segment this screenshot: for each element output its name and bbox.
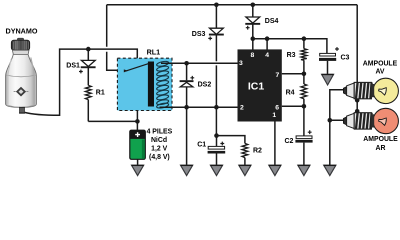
- wire R1 bottom to battery node: [88, 120, 137, 122]
- ground IC1 pin 1: [269, 165, 281, 175]
- svg-text:3: 3: [239, 60, 243, 67]
- svg-text:AMPOULE: AMPOULE: [363, 61, 398, 68]
- node junction DS2 top: [184, 61, 189, 66]
- capacitor C2: [295, 106, 312, 165]
- ground battery: [132, 165, 144, 175]
- svg-text:AMPOULE: AMPOULE: [363, 136, 398, 143]
- diode DS4: [245, 5, 260, 39]
- generator DYNAMO: [6, 38, 37, 113]
- svg-text:4 PILES: 4 PILES: [147, 129, 173, 136]
- svg-text:R3: R3: [287, 52, 296, 59]
- label AMPOULE AR: [363, 136, 398, 152]
- resistor R1: [85, 85, 91, 99]
- wire IC1 pin 7 to R3/R4 node: [282, 73, 304, 75]
- wire C1/DS3 node down: [215, 107, 217, 135]
- wire battery to ground: [137, 159, 139, 165]
- label C2 polarity +: [308, 130, 312, 134]
- IC U1 IC1: [238, 49, 282, 121]
- svg-text:NiCd: NiCd: [151, 137, 167, 144]
- node junction C1/R2: [214, 133, 219, 138]
- diode DS1: [81, 60, 96, 68]
- wire bulb tips to ground: [330, 90, 344, 165]
- svg-text:C1: C1: [197, 141, 206, 148]
- svg-text:2: 2: [240, 105, 244, 112]
- svg-text:R4: R4: [286, 90, 295, 97]
- svg-text:DYNAMO: DYNAMO: [6, 26, 38, 35]
- wire DS1 branch: [87, 49, 89, 121]
- ground bulbs: [324, 165, 336, 175]
- label DS1 polarity +: [79, 70, 83, 74]
- resistor R3: [301, 39, 307, 74]
- ground DS2: [181, 165, 193, 175]
- svg-text:(4,8 V): (4,8 V): [149, 154, 170, 161]
- wire IC1 pin 1 to ground: [274, 122, 276, 166]
- svg-text:1,2 V: 1,2 V: [151, 145, 167, 152]
- svg-text:8: 8: [251, 52, 255, 59]
- wire IC1 pin 6 to R4 bottom node: [282, 105, 304, 107]
- svg-text:C2: C2: [285, 138, 294, 145]
- wire positive supply node DS4 to C3: [253, 39, 327, 54]
- node junction bulb shells bottom: [355, 109, 360, 114]
- wire IC1 pin 4 stub: [266, 39, 268, 50]
- svg-text:IC1: IC1: [248, 81, 265, 93]
- svg-text:DS3: DS3: [192, 31, 206, 38]
- node junction dynamo/DS1: [86, 47, 91, 52]
- node junction DS4 rail: [251, 3, 256, 8]
- capacitor C1: [208, 136, 226, 166]
- label DS2 polarity +: [190, 76, 194, 80]
- node junction DS4 bottom: [251, 36, 256, 41]
- wire dynamo lead to relay contact: [24, 49, 137, 115]
- lamp AMPOULE AR: [343, 108, 398, 133]
- wire left drop from rail to relay pivot (gap at crossing): [107, 5, 125, 71]
- node junction battery top: [135, 119, 140, 124]
- node junction DS2 bottom: [184, 105, 189, 110]
- svg-text:DS2: DS2: [198, 82, 212, 89]
- label C3 polarity +: [335, 47, 339, 51]
- ground C2: [298, 165, 310, 175]
- svg-text:6: 6: [275, 105, 279, 112]
- lamp AMPOULE AV: [343, 78, 398, 103]
- wire relay coil bottom to IC1 pin 2: [160, 106, 238, 108]
- ground R2: [239, 165, 251, 175]
- capacitor C3: [319, 53, 336, 74]
- label battery 4 PILES NiCd 1,2 V (4,8 V): [147, 129, 173, 161]
- node junction DS3 rail: [214, 3, 219, 8]
- svg-text:C3: C3: [341, 55, 350, 62]
- wire top supply rail: [107, 4, 358, 6]
- resistor R2: [242, 143, 248, 165]
- relay RL1: [117, 58, 172, 110]
- wire relay contact pin down to battery: [136, 111, 138, 131]
- svg-text:R2: R2: [253, 148, 262, 155]
- svg-text:AV: AV: [375, 68, 384, 75]
- svg-text:1: 1: [272, 112, 276, 119]
- node junction R3/R4/pin7: [302, 72, 307, 77]
- svg-text:AR: AR: [376, 145, 386, 152]
- wire DS2 branch to ground: [186, 63, 188, 165]
- svg-text:4: 4: [265, 52, 269, 59]
- node junction pin4 stub: [265, 36, 270, 41]
- wire relay coil top to IC1 pin 3 (crosses DS3 wire): [161, 62, 238, 64]
- node junction red bulb tip: [328, 118, 333, 123]
- svg-text:R1: R1: [96, 90, 105, 97]
- node junction R4/pin6/C2: [302, 104, 307, 109]
- svg-text:DS4: DS4: [265, 18, 279, 25]
- label DS4 polarity +: [246, 26, 250, 30]
- svg-text:7: 7: [276, 72, 280, 79]
- wire right drop rail to bulb shells: [356, 5, 358, 112]
- wire IC1 pin 8 stub: [252, 39, 254, 50]
- resistor R4: [301, 74, 307, 107]
- label C1 polarity +: [220, 142, 224, 146]
- node junction R3 top: [302, 36, 307, 41]
- ground C1: [210, 165, 222, 175]
- node junction DS3 bottom: [214, 105, 219, 110]
- label AMPOULE AV: [363, 61, 398, 76]
- diode DS3: [209, 5, 224, 107]
- wire R2 branch: [217, 136, 245, 144]
- ground C3: [322, 74, 334, 85]
- diode DS2: [180, 80, 194, 87]
- svg-text:RL1: RL1: [147, 48, 161, 57]
- node junction bulb shells top: [355, 98, 360, 103]
- battery B1 4 piles NiCd: [130, 130, 146, 159]
- label DS3 polarity +: [208, 37, 212, 41]
- svg-text:DS1: DS1: [66, 63, 80, 70]
